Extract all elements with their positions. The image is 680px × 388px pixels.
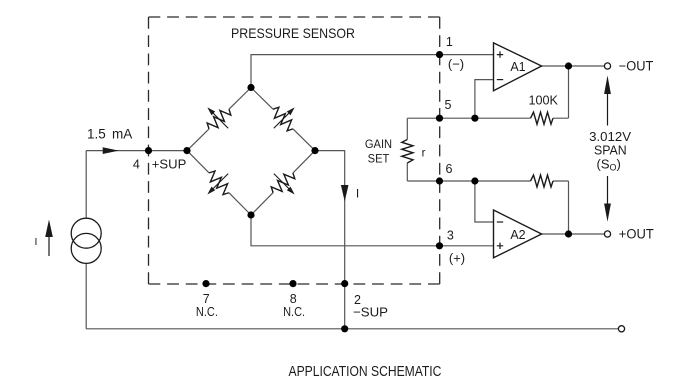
resistor bridge top-left zigzag: [205, 105, 233, 132]
node -SUP rail junction: [341, 325, 348, 332]
node bridge bottom: [247, 211, 254, 218]
arrow on bridge top-left resistor: [205, 106, 230, 131]
resistor bridge bottom-right zigzag: [269, 169, 297, 197]
svg-text:5: 5: [445, 98, 452, 112]
node pin 8: [289, 280, 296, 287]
node bridge right: [311, 147, 318, 154]
svg-text:+SUP: +SUP: [152, 156, 187, 171]
wire bottom rail: [86, 328, 618, 330]
node row6 junction: [471, 177, 478, 184]
bridge arm top-right wire stubs: [251, 88, 315, 151]
node pin 7: [202, 280, 209, 287]
bridge arm bottom-left wire stubs: [187, 151, 251, 215]
op-amp A1 triangle: [494, 43, 542, 91]
A1 - input symbol: [497, 79, 503, 81]
svg-text:PRESSURE SENSOR: PRESSURE SENSOR: [231, 25, 355, 41]
svg-text:(SO): (SO): [597, 156, 621, 172]
bridge arm bottom-right wire stubs: [251, 151, 315, 215]
resistor bridge bottom-left zigzag: [205, 169, 233, 197]
svg-text:APPLICATION SCHEMATIC: APPLICATION SCHEMATIC: [289, 364, 442, 380]
svg-text:7: 7: [203, 292, 210, 306]
svg-text:N.C.: N.C.: [283, 305, 305, 319]
node pin 5: [436, 115, 443, 122]
arrowhead on +SUP feed wire: [103, 147, 119, 154]
A2 + input symbol: [497, 243, 503, 249]
wire +SUP row: current source top feed to bridge left node: [86, 150, 187, 152]
svg-text:(+): (+): [449, 251, 465, 266]
wire pin5 row: [407, 117, 568, 119]
terminal -OUT open circle: [604, 63, 610, 69]
node pin 2: [341, 280, 348, 287]
svg-text:A1: A1: [510, 60, 525, 74]
A1 + input symbol: [497, 51, 503, 57]
svg-text:(−): (−): [448, 57, 464, 72]
wire row6 junction down to A2 - input: [475, 181, 494, 222]
resistor A2 feedback zigzag: [531, 175, 554, 187]
span arrow down: [607, 176, 609, 206]
node pin 6: [436, 177, 443, 184]
resistor r (gain set) zigzag: [402, 140, 413, 164]
wire current source bottom to bottom rail: [85, 263, 87, 328]
node bridge top: [247, 84, 254, 91]
arrow on bridge bottom-right resistor: [272, 172, 297, 197]
wire A1 output to -OUT terminal: [542, 65, 605, 67]
resistor bridge top-right zigzag: [269, 105, 297, 132]
svg-text:1.5: 1.5: [87, 127, 106, 142]
bridge arm top-left wire stubs: [187, 88, 251, 151]
svg-text:I: I: [356, 187, 359, 201]
op-amp A2 triangle: [494, 210, 542, 258]
svg-text:1: 1: [446, 35, 453, 49]
svg-text:GAIN: GAIN: [365, 139, 392, 151]
node row5 junction: [471, 115, 478, 122]
pressure sensor dashed boundary box: [149, 17, 440, 284]
wire pin2 to bottom rail: [344, 284, 346, 329]
svg-text:A2: A2: [510, 228, 525, 242]
current source I1 circles: [71, 218, 101, 248]
node bridge left: [183, 147, 190, 154]
wire bridge right node to pin2 (-SUP): [315, 151, 345, 284]
svg-text:I: I: [35, 236, 38, 248]
svg-text:SET: SET: [368, 154, 390, 166]
svg-text:+OUT: +OUT: [619, 226, 654, 241]
node pin 1: [436, 51, 443, 58]
svg-text:8: 8: [290, 292, 297, 306]
arrow I on -SUP drop wire: [341, 185, 349, 201]
svg-text:100K: 100K: [528, 93, 558, 108]
span arrow up: [607, 92, 609, 126]
svg-text:−SUP: −SUP: [353, 305, 388, 320]
svg-text:N.C.: N.C.: [196, 305, 218, 319]
svg-text:SPAN: SPAN: [594, 143, 627, 158]
terminal +OUT open circle: [604, 231, 610, 237]
wire left drop: corner down to current source: [85, 151, 87, 219]
wire A1 feedback: output node down to 100K: [568, 66, 570, 118]
arrow on bridge bottom-left resistor: [205, 172, 230, 197]
svg-text:−OUT: −OUT: [619, 58, 654, 73]
wire gain-set left leg (pin5 corner down to r, r to pin6 corner): [406, 118, 408, 181]
svg-text:6: 6: [446, 162, 453, 176]
svg-text:4: 4: [133, 157, 140, 171]
wire A2 feedback: resistor right end down to output node: [568, 181, 570, 234]
wire bridge bottom to pin3 row to A2 + input: [251, 215, 494, 246]
terminal -SUP rail open circle: [618, 326, 624, 332]
A2 - input symbol: [497, 221, 503, 223]
svg-text:mA: mA: [112, 127, 132, 142]
resistor 100K zigzag: [531, 112, 554, 124]
wire row5 junction up to A1 - input: [475, 80, 494, 119]
wire A2 output to +OUT terminal: [542, 233, 605, 235]
node A2 output: [565, 230, 572, 237]
svg-text:3: 3: [447, 229, 454, 243]
svg-text:r: r: [422, 148, 426, 160]
wire pin6 row: [407, 180, 568, 182]
arrow on bridge top-right resistor: [272, 106, 297, 131]
arrow I beside current source: [48, 235, 50, 256]
node pin 4: [145, 147, 152, 154]
wire pin1 row: bridge top to A1 + input: [251, 55, 494, 88]
node pin 3: [436, 242, 443, 249]
node A1 output: [565, 62, 572, 69]
